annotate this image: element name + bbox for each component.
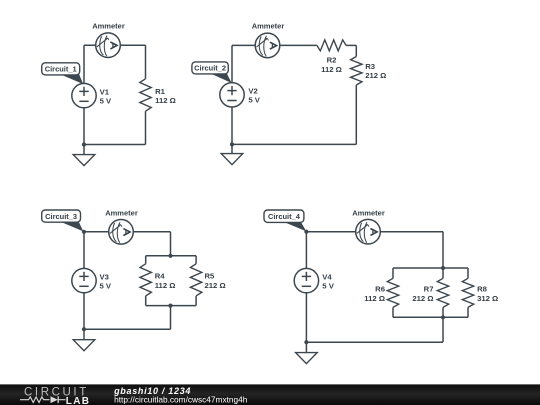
svg-text:LAB: LAB (66, 396, 90, 405)
svg-text:Circuit_2: Circuit_2 (194, 64, 226, 73)
svg-text:V2: V2 (248, 87, 257, 96)
svg-text:112 Ω: 112 Ω (155, 96, 176, 105)
svg-text:212 Ω: 212 Ω (365, 71, 386, 80)
svg-text:5 V: 5 V (100, 282, 112, 291)
svg-text:112 Ω: 112 Ω (364, 294, 385, 303)
svg-text:R8: R8 (477, 285, 488, 294)
svg-text:Ammeter: Ammeter (92, 22, 125, 31)
svg-text:R4: R4 (155, 272, 166, 281)
svg-text:R3: R3 (365, 62, 375, 71)
svg-text:R6: R6 (375, 285, 385, 294)
svg-text:V3: V3 (100, 272, 109, 281)
svg-text:5 V: 5 V (322, 282, 334, 291)
svg-text:Ammeter: Ammeter (105, 208, 138, 217)
svg-text:Circuit_4: Circuit_4 (268, 212, 301, 221)
svg-text:http://circuitlab.com/cwsc47mx: http://circuitlab.com/cwsc47mxtng4h (114, 395, 248, 405)
svg-text:5 V: 5 V (248, 96, 260, 105)
svg-text:5 V: 5 V (100, 97, 112, 106)
svg-text:212 Ω: 212 Ω (205, 281, 226, 290)
svg-text:V4: V4 (322, 272, 332, 281)
svg-text:212 Ω: 212 Ω (412, 294, 433, 303)
svg-text:R5: R5 (205, 272, 216, 281)
svg-text:112 Ω: 112 Ω (321, 65, 342, 74)
svg-text:V1: V1 (100, 87, 110, 96)
svg-text:Ammeter: Ammeter (352, 208, 385, 217)
svg-text:Circuit_1: Circuit_1 (45, 65, 78, 74)
svg-text:R1: R1 (155, 87, 166, 96)
svg-text:R7: R7 (424, 285, 434, 294)
svg-text:Circuit_3: Circuit_3 (45, 212, 77, 221)
svg-text:112 Ω: 112 Ω (155, 281, 176, 290)
svg-text:Ammeter: Ammeter (252, 22, 285, 31)
svg-text:312 Ω: 312 Ω (477, 294, 498, 303)
svg-text:R2: R2 (327, 55, 337, 64)
